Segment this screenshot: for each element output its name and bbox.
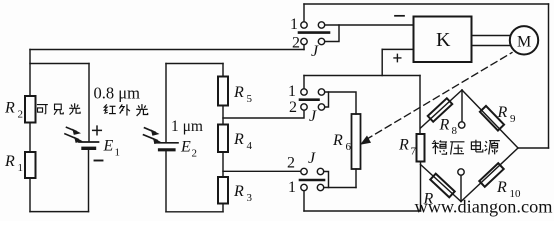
svg-text:R: R [233, 183, 244, 200]
wire: divider branch [222, 64, 224, 77]
svg-text:R: R [233, 84, 244, 101]
dashed mechanical link M to R6 [366, 53, 512, 140]
svg-text:0.8 μm: 0.8 μm [94, 84, 141, 103]
svg-text:6: 6 [346, 141, 352, 153]
resistor R5 [218, 77, 228, 106]
svg-text:1 μm: 1 μm [171, 118, 203, 135]
svg-text:2: 2 [192, 148, 198, 160]
resistor R8 [428, 98, 453, 122]
switch SW2 contact 2 right [318, 104, 324, 110]
svg-text:K: K [436, 29, 451, 51]
wire: SW1-2R jumper [325, 25, 339, 42]
text 可见光 (visible light) [37, 105, 48, 114]
wire: E1 loop top inner [30, 63, 89, 65]
wire: E2 branch lower [165, 152, 167, 212]
wire: tap R4/R3 junction to SW3 contact 2 [223, 170, 301, 172]
plus sign at K [394, 54, 401, 61]
resistor R9 [480, 106, 504, 131]
wire: bridge top node stem [461, 90, 463, 122]
wire: E1 loop left branch [29, 50, 31, 97]
svg-text:2: 2 [289, 99, 297, 116]
text 红外光 (infrared light) [104, 104, 116, 113]
switch SW2 contact 1 left [301, 89, 307, 95]
switch SW3 contact 2 right [317, 168, 323, 174]
svg-text:1: 1 [290, 16, 298, 33]
wire: E2 branch upper [165, 64, 167, 142]
wire: E2 loop bottom [166, 211, 223, 213]
switch SW1 contact 2 right [318, 38, 324, 44]
svg-text:E: E [180, 139, 191, 156]
wire: K plus down to mid rail [381, 49, 383, 75]
resistor R3 [218, 177, 228, 204]
switch SW2 blade [300, 98, 319, 101]
svg-text:4: 4 [247, 140, 253, 152]
switch SW1 contact 1 right [318, 22, 324, 28]
svg-text:9: 9 [510, 113, 516, 125]
svg-text:R: R [497, 104, 508, 121]
svg-text:5: 5 [247, 93, 253, 105]
wire: K plus terminal [382, 48, 413, 50]
battery E2 plates [155, 142, 178, 144]
wire: E1 branch lower [88, 150, 90, 212]
svg-text:1: 1 [288, 179, 296, 196]
svg-text:R: R [439, 117, 450, 134]
terminal circle top of power supply [459, 122, 465, 128]
text 稳压电源 (regulated power supply) [432, 140, 447, 154]
wire: SW2-1L stem to mid rail [303, 76, 305, 89]
switch SW2 contact 2 left [301, 104, 307, 110]
wire: SW2 output to R6 top [329, 92, 357, 114]
wire: bridge left vertical [419, 76, 421, 135]
wire: mid rail [304, 75, 420, 77]
motor M circle [510, 26, 538, 54]
svg-text:1: 1 [288, 83, 296, 100]
light arrows at E1 [65, 127, 78, 139]
svg-text:R: R [332, 132, 343, 149]
svg-text:3: 3 [247, 192, 253, 204]
resistor R4 [218, 125, 228, 153]
wire: E2 loop top [166, 63, 223, 65]
wire: right edge down [548, 4, 550, 148]
minus sign at K [395, 15, 404, 17]
resistor R10 [479, 163, 503, 187]
wire: SW1-1R to relay K [325, 24, 413, 26]
resistor R1 [25, 152, 36, 178]
bridge arm R10 wire [461, 148, 518, 202]
svg-text:R: R [496, 179, 507, 196]
wire: K to motor double lines [472, 36, 510, 46]
svg-text:R: R [4, 100, 15, 117]
resistor R7 [417, 134, 425, 162]
svg-text:2: 2 [18, 109, 24, 121]
switch SW3 contact 1 left [301, 184, 307, 190]
potentiometer R6 [352, 114, 361, 169]
terminal circle bottom of power supply [458, 169, 464, 175]
wire: SW1-1L stem to top rail [303, 4, 305, 22]
svg-text:R: R [4, 153, 15, 170]
svg-text:1: 1 [115, 147, 121, 159]
svg-text:E: E [103, 138, 114, 155]
svg-text:R: R [233, 131, 244, 148]
wire: bottom terminal stem to bridge bottom node [460, 175, 462, 201]
svg-text:2: 2 [292, 35, 300, 52]
switch SW3 contact 2 left [301, 168, 307, 174]
switch SW1 blade [299, 31, 329, 34]
resistor R2 [25, 96, 36, 123]
wire: right edge to bridge right node [518, 147, 549, 149]
battery E1 plates [79, 141, 99, 143]
switch SW3 contact 1 right [317, 184, 323, 190]
wire: SW3 right jumper [324, 172, 329, 188]
svg-text:1: 1 [18, 162, 24, 174]
resistor R lower-left [430, 174, 454, 198]
svg-text:J: J [311, 43, 319, 60]
wire: SW3-1L stem down [303, 191, 305, 211]
svg-text:2: 2 [287, 155, 295, 172]
wire: SW1-2L stem [303, 45, 305, 50]
svg-text:J: J [309, 108, 317, 125]
wire: SW2 right jumper [325, 92, 329, 107]
wire: top rail to right edge [304, 3, 549, 5]
svg-text:R: R [398, 137, 409, 154]
wire: bottom rail [304, 210, 421, 212]
plus sign at E1 [93, 126, 102, 135]
svg-text:www.diangon.com: www.diangon.com [415, 197, 553, 217]
light arrows at E2 [144, 128, 158, 141]
switch SW3 blade [300, 179, 324, 182]
wire: E1 branch upper [88, 64, 90, 142]
relay K box [414, 17, 472, 63]
bridge arm lower-left wire [421, 165, 462, 202]
minus sign at E1 [95, 160, 103, 162]
switch SW2 contact 1 right [318, 89, 324, 95]
svg-text:J: J [308, 150, 316, 167]
wire: R6 bottom stem [355, 169, 357, 188]
wire: R6 bottom to SW3 right [325, 187, 356, 189]
wire: E1 top node to switch SW1 contact 2 [30, 49, 304, 51]
switch SW1 contact 2 left [301, 38, 307, 44]
svg-text:7: 7 [411, 146, 417, 158]
wire: E1 loop bottom [30, 211, 89, 213]
svg-text:M: M [517, 34, 531, 51]
svg-text:8: 8 [452, 125, 458, 137]
arrowhead at R6 [360, 136, 371, 145]
bridge arm R8 wire [421, 90, 463, 128]
switch SW1 contact 1 left [301, 22, 307, 28]
wire: tap R5/R4 junction to SW2 contact 2 [223, 110, 304, 118]
bridge arm R9 wire [462, 90, 518, 148]
